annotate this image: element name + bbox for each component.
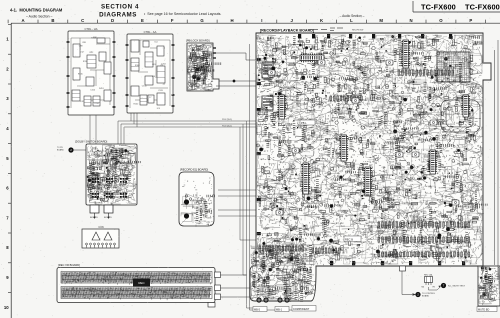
rec vr slider bar upper (61, 272, 212, 284)
svg-text:Q205: Q205 (429, 146, 435, 148)
rec vr slider hatch upper (61, 272, 210, 282)
svg-text:PLB 5(B-5): PLB 5(B-5) (222, 126, 232, 128)
record board trace layer (257, 35, 482, 264)
control board A outline (68, 31, 114, 115)
svg-text:MB-1: MB-1 (276, 309, 283, 312)
wires board A to dolby board (90, 115, 96, 144)
svg-text:L: L (350, 18, 353, 23)
svg-text:P: P (469, 18, 472, 23)
rec vr bottom stub (208, 303, 215, 308)
record EQ board outline (179, 172, 214, 226)
left ruler line (10, 23, 12, 318)
wires rec vr to record board (221, 275, 250, 297)
right edge cut wires (495, 40, 499, 280)
mute board label (477, 307, 497, 312)
PB/LOCK board right pins (213, 48, 216, 58)
callout 7 NL mute test (441, 283, 446, 288)
svg-text:[RECORD EQ BOARD]: [RECORD EQ BOARD] (180, 168, 208, 172)
control board B outline (127, 34, 173, 113)
left ruler numbers and ticks (4, 24, 11, 309)
connector stub above wire (400, 266, 406, 271)
svg-text:10: 10 (4, 305, 9, 310)
vertical wires along record board left edge (240, 44, 310, 310)
svg-text:I: I (261, 18, 262, 23)
dark IC blobs near left edge (262, 62, 273, 78)
svg-text:DIAGRAMS: DIAGRAMS (99, 12, 137, 19)
top ruler line (11, 22, 500, 24)
record playback board outline (250, 33, 491, 301)
svg-text:– Audio Section –: – Audio Section – (26, 14, 53, 18)
connector amp board bottom pin circles (86, 243, 88, 245)
svg-text:[REC VR BOARD]: [REC VR BOARD] (58, 263, 80, 267)
svg-text:REC/PB SW: REC/PB SW (352, 30, 363, 32)
svg-text:Q205: Q205 (328, 260, 334, 262)
resistor row bank left A (259, 246, 261, 251)
svg-text:M: M (379, 18, 383, 23)
rec vr board outline (57, 268, 215, 303)
top ruler letters and ticks (8, 18, 486, 23)
svg-text:MUTE BD: MUTE BD (478, 309, 489, 312)
control board B components (131, 40, 139, 52)
svg-text:CTRL - HA: CTRL - HA (84, 27, 97, 31)
control board A wiring (71, 38, 110, 108)
resistor row bank left B (312, 248, 314, 253)
dolby switch board bottom connectors (90, 205, 99, 213)
rec vr center label block (133, 279, 150, 287)
resistor row bank 3 (378, 252, 380, 257)
svg-text:B: B (51, 18, 54, 23)
IC U105 vertical dip (277, 95, 286, 119)
rec cal trimmer (425, 277, 433, 283)
svg-text:REC B: REC B (345, 237, 353, 241)
svg-text:BOARD: BOARD (57, 149, 64, 152)
rec vr bar mid lines (62, 276, 211, 295)
control board B edge pads (126, 44, 129, 46)
dolby connector pins (95, 213, 109, 217)
svg-text:PB L: PB L (301, 121, 307, 125)
svg-text:Q205: Q205 (98, 186, 104, 188)
rec vr right connectors (215, 272, 221, 278)
model box TC-FX600 (413, 1, 500, 12)
svg-text:4-1. MOUNTING DIAGRAM: 4-1. MOUNTING DIAGRAM (10, 8, 63, 13)
wire bundle board B to dolby/record (118, 113, 256, 144)
record board component clusters (454, 229, 455, 230)
IC U106 horizontal dip (300, 53, 324, 62)
component side label (292, 306, 316, 312)
svg-text:CON: CON (98, 226, 104, 229)
shield mesh block top right (437, 52, 470, 82)
wire junction diamond (232, 79, 236, 83)
svg-text:COMPONENT: COMPONENT (293, 308, 310, 311)
svg-text:CTRL - AA: CTRL - AA (144, 30, 157, 34)
wire PB/LOCK to record board lower (216, 85, 256, 87)
PB/LOCK board components (188, 44, 212, 90)
svg-text:REC CAL: REC CAL (424, 274, 434, 277)
op-amp triangle left (92, 232, 100, 240)
IC U101 vertical dip (301, 163, 310, 194)
wire PB/LOCK to record board mid (219, 80, 295, 82)
dolby switch blocks row 1 (92, 178, 94, 180)
record board edge connector pads top (298, 34, 301, 39)
callout 2 to power supply board (68, 147, 73, 152)
svg-text:MB-5: MB-5 (254, 309, 261, 312)
svg-text:H: H (230, 18, 233, 23)
resistor row bank mid top (330, 96, 332, 101)
IC U103 vertical dip (401, 40, 410, 68)
wire PB/LOCK to record board upper (216, 53, 256, 60)
race track trace loop top right (441, 100, 480, 132)
svg-text:• See page 16 for Semiconduct: • See page 16 for Semiconductor Lead Lay… (144, 12, 221, 16)
white service label in board (344, 236, 361, 242)
record board bottom right extension (478, 266, 500, 306)
svg-text:TC-FX600: TC-FX600 (421, 3, 456, 12)
svg-text:E: E (141, 18, 144, 23)
svg-text:BOARD: BOARD (422, 295, 430, 298)
svg-text:Q205: Q205 (114, 186, 120, 188)
IC U102 vertical dip (363, 167, 372, 196)
resistor row bank 1 (378, 222, 380, 227)
dolby switch board outline (86, 144, 137, 205)
connector amp board outline (82, 229, 119, 248)
control board B wiring (130, 40, 170, 108)
svg-text:TC-FX600: TC-FX600 (465, 3, 500, 12)
op-amp triangle right (104, 232, 112, 240)
svg-text:REC: REC (138, 281, 145, 285)
IC U107 vertical dip (428, 150, 437, 174)
resistor row bank small top (398, 70, 400, 75)
svg-text:[RECORD/PLAYBACK BOARD]: [RECORD/PLAYBACK BOARD] (260, 29, 315, 33)
svg-text:C: C (81, 18, 84, 23)
svg-text:SECTION 4: SECTION 4 (101, 4, 139, 11)
resistor row bank 2 (378, 237, 380, 242)
svg-text:PLB 7(B-5): PLB 7(B-5) (222, 119, 232, 121)
trimmer pots bottom left (256, 297, 261, 302)
svg-text:D: D (111, 18, 114, 23)
trimmer labels (253, 307, 267, 312)
IC U108 vertical dip (461, 95, 470, 117)
record EQ board components (181, 192, 212, 224)
svg-text:[DOLBY SWITCH BOARD]: [DOLBY SWITCH BOARD] (75, 140, 107, 144)
svg-text:BOARD: BOARD (90, 216, 98, 219)
svg-text:F: F (171, 18, 174, 23)
callout 2 to control board (415, 292, 420, 297)
rec vr slider bar lower (61, 287, 212, 299)
control board A edge pads (67, 41, 70, 43)
wires record EQ to record board (218, 190, 256, 216)
svg-text:A: A (21, 18, 24, 23)
svg-text:[PB/LOCK BOARD]: [PB/LOCK BOARD] (186, 39, 210, 43)
control board A components (73, 44, 80, 57)
dolby switch board components (87, 145, 136, 204)
dolby switch blocks row 2 (92, 193, 94, 195)
variable resistor trimmers in board (396, 152, 403, 157)
svg-text:N.L. MUTE TEST: N.L. MUTE TEST (448, 286, 466, 288)
PB/LOCK board outline (187, 43, 219, 91)
wire to callout 2 (402, 271, 415, 295)
IC U104 vertical dip (339, 135, 348, 161)
white service label in board 2 (300, 120, 315, 125)
svg-text:N: N (410, 18, 413, 23)
rec vr slider hatch lower (61, 287, 210, 298)
